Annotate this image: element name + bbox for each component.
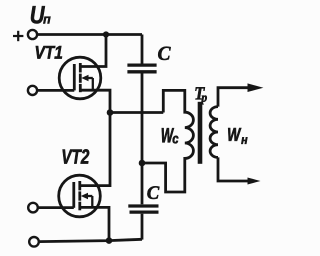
junction dot: half-bridge midpoint node: [107, 109, 114, 116]
wire cap midpoint to capacitor C2: [141, 163, 144, 204]
transformer Tp primary winding Wc (3 bumps): [142, 90, 193, 192]
label Tр (transformer): [195, 87, 206, 104]
label VT2: [63, 149, 90, 163]
capacitor C1 wire from top rail: [141, 35, 144, 64]
wire secondary bottom lead: [218, 157, 249, 181]
capacitor C1 plates: [127, 63, 156, 66]
transistor VT2 (n-channel MOSFET): [59, 175, 101, 217]
arrow output top: [248, 83, 264, 92]
transformer core (two bars): [198, 102, 203, 164]
junction dot: VT2 source / bottom rail: [106, 237, 113, 244]
terminal - input (open circle): [29, 237, 39, 247]
wire secondary top lead: [218, 88, 250, 107]
arrow output bottom: [248, 178, 261, 185]
wire VT2 gate lead: [38, 206, 74, 209]
wire VT1 drain to top rail: [81, 35, 106, 67]
junction dot: VT1 drain / top rail: [103, 31, 109, 37]
wire VT1 gate lead: [37, 89, 74, 92]
junction dot: capacitor midpoint node: [139, 160, 146, 167]
terminal VT2 gate (open circle): [28, 203, 38, 213]
wire VT2 source to bottom rail: [81, 207, 110, 240]
transformer secondary winding Wн (4 bumps): [210, 107, 218, 158]
transistor VT1 (n-channel MOSFET): [59, 57, 101, 99]
label Uп (supply voltage): [31, 6, 51, 23]
capacitor C2 plates: [128, 204, 158, 207]
label C (lower capacitor): [147, 186, 159, 199]
wire C2 bottom to bottom rail: [141, 214, 144, 240]
plus sign (+ supply polarity): [13, 31, 23, 41]
label C (upper capacitor): [158, 47, 171, 60]
wire bottom rail: [39, 239, 142, 241]
label VT1: [36, 46, 62, 59]
wire capacitor chain middle (C1 bottom to cap midpoint): [141, 73, 144, 163]
label Wc: [162, 128, 179, 143]
terminal VT1 gate (open circle): [28, 86, 37, 95]
wire midpoint to primary winding Wc top: [110, 111, 163, 114]
terminal + input (open circle): [28, 30, 37, 39]
wire center rail: VT1 source to VT2 drain: [81, 90, 111, 185]
label Wн: [228, 128, 247, 144]
wire top rail (+ rail to capacitor C1): [37, 33, 142, 36]
